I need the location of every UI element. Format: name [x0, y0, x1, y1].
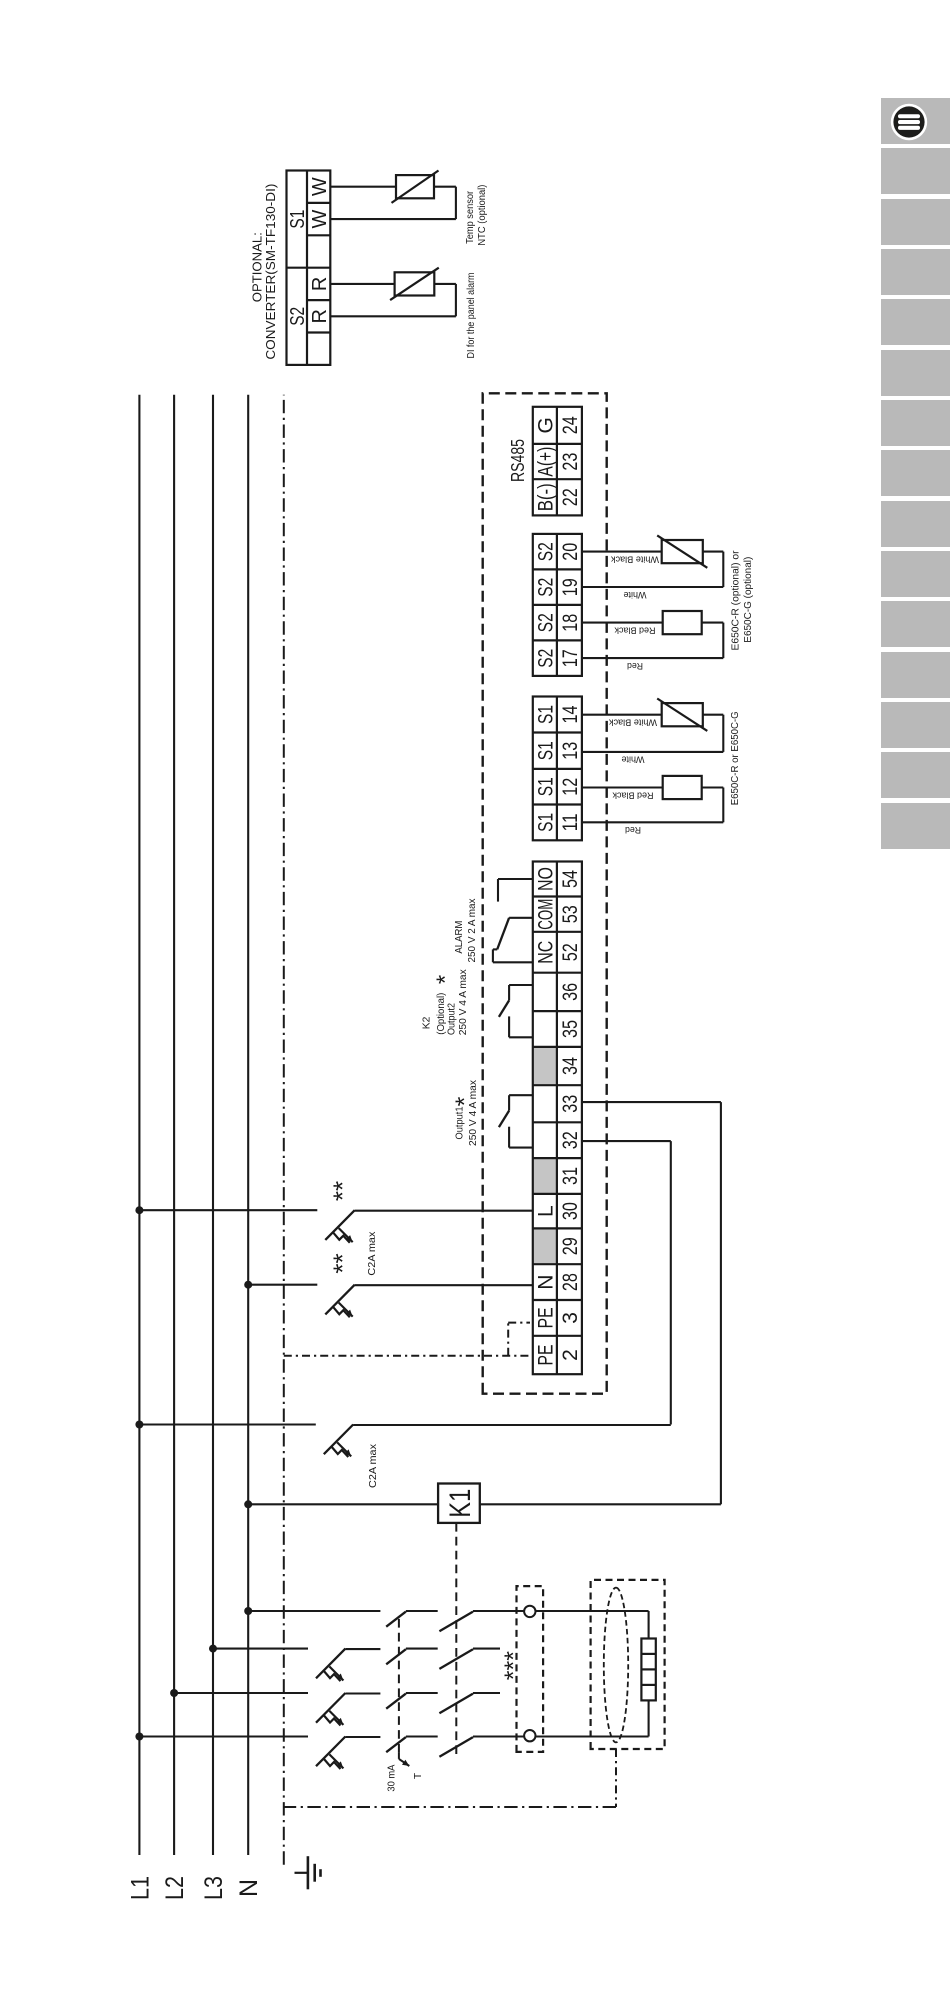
svg-text:COM: COM [534, 899, 557, 930]
svg-text:11: 11 [559, 813, 582, 831]
svg-text:12: 12 [559, 778, 582, 796]
svg-text:Red Black: Red Black [614, 625, 655, 635]
svg-text:DI for the panel alarm: DI for the panel alarm [466, 273, 477, 359]
svg-text:E650C-G (optional): E650C-G (optional) [743, 557, 754, 643]
svg-text:K1: K1 [444, 1489, 477, 1518]
svg-text:54: 54 [559, 870, 582, 888]
svg-text:NO: NO [534, 867, 557, 891]
svg-text:28: 28 [559, 1273, 582, 1291]
svg-text:22: 22 [559, 488, 582, 506]
svg-text:White: White [622, 755, 645, 765]
svg-text:Red Black: Red Black [612, 790, 653, 800]
svg-text:N: N [534, 1275, 557, 1290]
svg-text:White: White [624, 590, 647, 600]
svg-text:G: G [534, 417, 557, 433]
svg-text:S1: S1 [534, 777, 557, 796]
svg-text:30 mA: 30 mA [387, 1764, 398, 1791]
svg-text:L3: L3 [200, 1876, 228, 1900]
svg-text:32: 32 [559, 1131, 582, 1149]
svg-text:L1: L1 [126, 1876, 154, 1900]
svg-text:20: 20 [559, 543, 582, 561]
svg-text:CONVERTER(SM-TF130-DI): CONVERTER(SM-TF130-DI) [263, 184, 278, 360]
svg-text:Temp sensor: Temp sensor [465, 190, 476, 244]
svg-text:PE: PE [534, 1307, 557, 1328]
svg-text:35: 35 [559, 1020, 582, 1038]
svg-text:23: 23 [559, 453, 582, 471]
svg-text:14: 14 [559, 705, 582, 723]
svg-text:S2: S2 [534, 613, 557, 632]
svg-text:30: 30 [559, 1202, 582, 1220]
svg-text:52: 52 [559, 943, 582, 961]
svg-text:Red: Red [627, 661, 643, 671]
svg-text:13: 13 [559, 742, 582, 760]
svg-text:34: 34 [559, 1057, 582, 1075]
svg-text:3: 3 [559, 1312, 582, 1324]
svg-text:33: 33 [559, 1095, 582, 1113]
svg-text:B(-): B(-) [534, 483, 557, 511]
svg-text:S1: S1 [534, 741, 557, 760]
svg-text:**: ** [328, 1253, 358, 1273]
svg-text:RS485: RS485 [508, 439, 528, 482]
svg-text:S2: S2 [534, 578, 557, 597]
svg-text:White Black: White Black [610, 554, 659, 564]
svg-text:L: L [534, 1205, 557, 1217]
svg-text:ALARM: ALARM [454, 921, 465, 954]
svg-text:250 V 4 A max: 250 V 4 A max [468, 1079, 479, 1146]
svg-text:S2: S2 [534, 542, 557, 561]
svg-text:24: 24 [559, 416, 582, 434]
svg-text:NC: NC [534, 941, 557, 964]
svg-text:***: *** [500, 1651, 528, 1680]
svg-text:PE: PE [534, 1345, 557, 1366]
svg-text:S1: S1 [534, 813, 557, 832]
svg-text:31: 31 [559, 1167, 582, 1185]
svg-text:N: N [235, 1879, 263, 1897]
svg-text:C2A max: C2A max [368, 1443, 379, 1488]
svg-text:S2: S2 [287, 307, 309, 326]
svg-text:36: 36 [559, 983, 582, 1001]
svg-text:18: 18 [559, 614, 582, 632]
svg-text:E650C-R or E650C-G: E650C-R or E650C-G [730, 711, 741, 805]
svg-text:S1: S1 [534, 705, 557, 724]
svg-text:L2: L2 [161, 1876, 189, 1900]
svg-text:Output1: Output1 [455, 1106, 466, 1139]
svg-text:S2: S2 [534, 649, 557, 668]
svg-text:17: 17 [559, 649, 582, 667]
svg-text:*: * [432, 975, 459, 984]
svg-text:R: R [309, 277, 331, 291]
svg-text:R: R [309, 309, 331, 323]
svg-text:(Optional): (Optional) [436, 993, 447, 1035]
svg-text:K2: K2 [422, 1016, 433, 1029]
svg-text:29: 29 [559, 1237, 582, 1255]
svg-text:Output2: Output2 [447, 1003, 458, 1035]
svg-text:C2A max: C2A max [367, 1231, 378, 1276]
svg-text:S1: S1 [287, 210, 309, 229]
svg-text:250 V 4 A max: 250 V 4 A max [458, 968, 469, 1035]
svg-text:Red: Red [625, 825, 641, 835]
svg-text:**: ** [328, 1181, 358, 1201]
svg-text:19: 19 [559, 578, 582, 596]
svg-text:T: T [413, 1772, 424, 1779]
svg-text:2: 2 [559, 1349, 582, 1361]
svg-text:53: 53 [559, 905, 582, 923]
svg-text:White Black: White Black [608, 718, 657, 728]
svg-text:W: W [309, 210, 331, 229]
svg-text:250 V 2 A max: 250 V 2 A max [467, 898, 478, 963]
svg-text:NTC (optional): NTC (optional) [477, 185, 488, 246]
svg-text:E650C-R (optional) or: E650C-R (optional) or [731, 550, 742, 651]
svg-text:W: W [309, 177, 331, 196]
svg-text:A(+): A(+) [534, 447, 557, 477]
